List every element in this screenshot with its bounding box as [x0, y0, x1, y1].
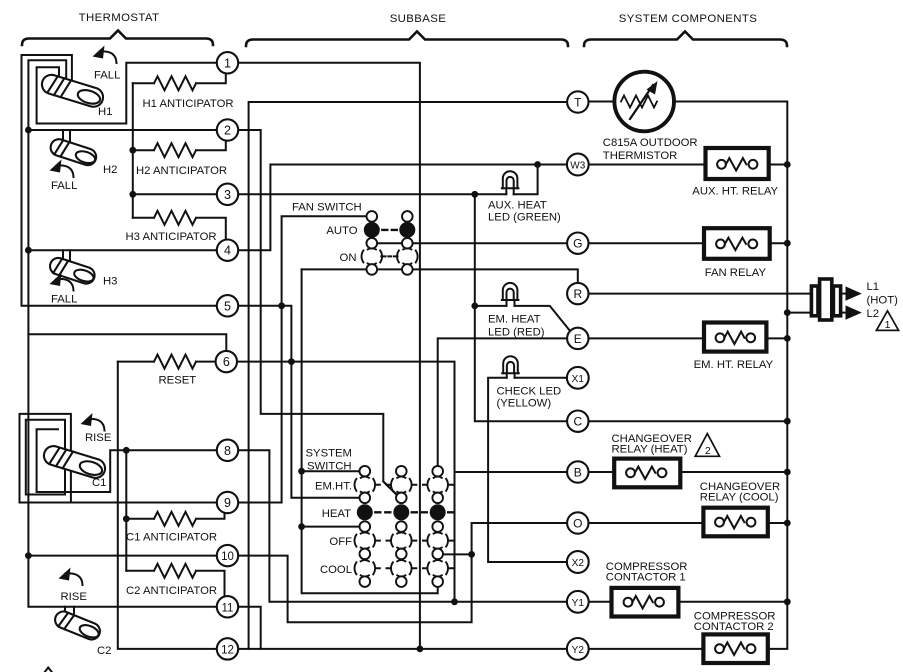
svg-text:CONTACTOR 1: CONTACTOR 1 [606, 572, 686, 584]
arrow L1 [841, 293, 846, 295]
brace thermostat [22, 31, 213, 46]
arrow L2 [841, 312, 846, 314]
dashed contact row ticks y=484.8 [376, 484, 453, 486]
svg-text:THERMISTOR: THERMISTOR [603, 150, 677, 162]
wire H3 stubs [63, 250, 70, 263]
warning triangle 2 (changeover heat) [695, 434, 719, 457]
warning triangle 1 (L2) [876, 311, 898, 331]
svg-text:EM. HT. RELAY: EM. HT. RELAY [694, 359, 774, 371]
svg-text:LED (RED): LED (RED) [488, 327, 545, 339]
svg-text:11: 11 [222, 602, 234, 614]
wire terminal 4 left [28, 249, 216, 251]
arrow FALL H3 [57, 279, 74, 291]
terminal B [567, 461, 588, 482]
svg-text:RISE: RISE [61, 591, 88, 603]
fan col1 contacts [367, 211, 378, 222]
title SUBBASE [390, 13, 447, 25]
wire anticipator bus x=126.3 [125, 450, 127, 571]
svg-text:THERMOSTAT: THERMOSTAT [79, 12, 160, 24]
svg-text:RELAY (HEAT): RELAY (HEAT) [612, 444, 688, 456]
svg-text:8: 8 [224, 444, 231, 458]
svg-text:AUX. HEAT: AUX. HEAT [488, 200, 547, 212]
terminal G [567, 233, 588, 254]
fan on dashed contact col2 [403, 248, 411, 249]
svg-text:RISE: RISE [85, 432, 112, 444]
svg-text:EM.HT.: EM.HT. [315, 480, 352, 492]
terminal 2 [217, 119, 238, 140]
brace system components [584, 32, 787, 47]
arrow RISE C2 [66, 573, 83, 585]
resistor H2 anticipator [133, 141, 226, 157]
wire net system switch col1 top [302, 470, 360, 472]
svg-text:H2: H2 [103, 164, 117, 176]
arrow FALL H2 [57, 165, 74, 177]
svg-text:SYSTEM COMPONENTS: SYSTEM COMPONENTS [619, 13, 757, 25]
svg-text:2: 2 [705, 445, 711, 457]
wire net fan switch feed [282, 216, 367, 306]
svg-text:CHECK LED: CHECK LED [497, 386, 562, 398]
terminal C [567, 411, 588, 432]
wire C1 outer loop with terminal 9 wire [20, 414, 217, 503]
wire net terminal 9 [238, 306, 281, 503]
svg-text:T: T [574, 96, 582, 110]
svg-text:H1 ANTICIPATOR: H1 ANTICIPATOR [143, 98, 234, 110]
terminal 10 [217, 545, 238, 566]
dashed contact row ticks y=568.3 [376, 567, 453, 569]
wire left rail 2 (H1 mid loop down to terminal 11 wire) [28, 60, 216, 607]
terminal X1 [567, 367, 589, 389]
mercury bulb C2 [53, 609, 103, 642]
switch column small contacts x=364.8 [360, 466, 371, 477]
wire net terminal 8 to Y1 [238, 450, 567, 602]
svg-text:HEAT: HEAT [322, 508, 351, 520]
wire terminal 10 left [28, 555, 216, 557]
svg-text:L1: L1 [867, 281, 880, 293]
relay FAN [589, 228, 788, 259]
svg-text:9: 9 [224, 496, 231, 510]
wire net G row [367, 242, 567, 244]
connector L1 L2 plug [811, 279, 840, 320]
wire net terminal 3 to aux LED [238, 165, 537, 195]
svg-text:R: R [573, 287, 582, 301]
wire net ON row to R [302, 269, 578, 283]
svg-text:C1 ANTICIPATOR: C1 ANTICIPATOR [126, 532, 217, 544]
svg-text:COOL: COOL [320, 564, 352, 576]
wire terminal 2 left [28, 129, 216, 131]
svg-text:5: 5 [224, 299, 231, 313]
arrow RISE C1 [88, 419, 105, 431]
svg-text:(YELLOW): (YELLOW) [497, 398, 552, 410]
svg-text:C2 ANTICIPATOR: C2 ANTICIPATOR [126, 585, 217, 597]
dashed contact (437.7,540.6) [434, 532, 442, 533]
terminal 1 [217, 52, 238, 73]
relay CHANGEOVER COOL [589, 508, 788, 537]
wire net col3 off spur [443, 553, 472, 555]
svg-text:RESET: RESET [159, 375, 197, 387]
thermistor C815A [567, 72, 787, 649]
terminal 6 [216, 351, 237, 372]
wire anticipator bus x=132.8 [132, 83, 134, 218]
wire net terminal 6 to B [238, 362, 567, 602]
resistor C2 anticipator [126, 564, 224, 596]
svg-text:H3: H3 [103, 276, 117, 288]
svg-text:2: 2 [224, 124, 231, 138]
svg-text:AUTO: AUTO [326, 225, 357, 237]
wire C1 mid loop [26, 420, 65, 495]
wire terminal 3 left [133, 193, 217, 195]
terminal O [567, 512, 588, 533]
terminal W3 [567, 154, 589, 176]
svg-text:SUBBASE: SUBBASE [390, 13, 447, 25]
relay EM HT [589, 323, 788, 352]
svg-text:Y2: Y2 [572, 645, 585, 656]
dashed contact (437.7,568.3) [434, 560, 442, 561]
svg-text:6: 6 [223, 355, 230, 369]
wire net terminal 5 to fan bus [238, 306, 359, 498]
svg-text:12: 12 [221, 644, 234, 656]
svg-text:3: 3 [224, 188, 231, 202]
resistor C1 anticipator [126, 512, 224, 526]
wire terminal 6 top feed [28, 334, 226, 351]
svg-text:H3 ANTICIPATOR: H3 ANTICIPATOR [126, 231, 217, 243]
svg-text:(HOT): (HOT) [867, 295, 899, 307]
terminal 11 [217, 596, 238, 617]
wire net em heat LED to E [475, 306, 571, 331]
wire net T bus [249, 102, 567, 649]
wire net terminal 12 to Y2 [238, 648, 567, 650]
dashed contact (364.8,484.8) [361, 477, 369, 478]
svg-text:SYSTEM: SYSTEM [306, 448, 352, 460]
svg-text:RELAY (COOL): RELAY (COOL) [700, 492, 779, 504]
wire net terminal 1 to Y2 bus [238, 63, 420, 649]
fan on dashed contact col1 [368, 248, 376, 249]
wire net X1 check LED X2 [488, 378, 567, 562]
svg-text:O: O [573, 517, 582, 531]
wire C2 stubs [65, 607, 74, 619]
switch blade col2 em ht [383, 482, 397, 496]
dashed contact (401.3,540.6) [397, 532, 405, 533]
svg-text:1: 1 [885, 319, 891, 331]
system switch contacts [355, 466, 454, 587]
mercury bulb H1 [40, 73, 106, 110]
mercury bulb H2 [48, 137, 98, 167]
svg-text:FAN RELAY: FAN RELAY [705, 267, 767, 279]
title SYSTEM COMPONENTS [619, 13, 757, 25]
LED em heat (red) [502, 283, 519, 306]
LED aux heat (green) [502, 171, 519, 194]
wire H2 stubs [63, 130, 70, 145]
wire net system switch bus [302, 269, 438, 593]
svg-text:G: G [573, 237, 582, 251]
fan on ticks [381, 255, 397, 257]
wire C1 inner loop with terminal 8 wire [37, 429, 217, 492]
mercury bulb C1 [42, 444, 108, 481]
wire H1 inner loop [37, 63, 217, 124]
brace subbase [246, 32, 568, 47]
svg-text:E: E [574, 332, 582, 346]
wire net L2 [787, 312, 811, 314]
svg-text:LED (GREEN): LED (GREEN) [488, 212, 561, 224]
terminal X2 [567, 551, 589, 573]
svg-text:FALL: FALL [94, 70, 120, 82]
svg-text:FAN SWITCH: FAN SWITCH [292, 202, 362, 214]
svg-text:H2 ANTICIPATOR: H2 ANTICIPATOR [136, 165, 227, 177]
relay COMPRESSOR CONTACTOR 2 [589, 634, 768, 663]
warning triangle bottom left (partial) [45, 668, 52, 672]
switch column small contacts x=401.3 [396, 466, 407, 477]
resistor H3 anticipator [133, 211, 226, 240]
svg-text:X2: X2 [572, 558, 585, 569]
wire left rail (H1 outer loop to terminal 5) [22, 55, 217, 306]
terminal 9 [217, 492, 238, 513]
wire net system switch heat bottom [302, 526, 360, 528]
svg-text:B: B [574, 466, 582, 480]
svg-text:ON: ON [340, 252, 357, 264]
svg-text:C1: C1 [92, 477, 106, 489]
heat row dashes [375, 511, 453, 513]
resistor RESET [118, 355, 217, 369]
mercury bulb H3 [48, 256, 97, 286]
terminal 5 [217, 295, 238, 316]
dashed contact (364.8,568.3) [361, 560, 369, 561]
svg-text:AUX. HT. RELAY: AUX. HT. RELAY [692, 186, 778, 198]
relay COMPRESSOR CONTACTOR 1 [589, 588, 788, 617]
svg-text:OFF: OFF [329, 536, 352, 548]
svg-text:Y1: Y1 [572, 598, 585, 609]
LED check (yellow) [502, 356, 519, 378]
switch column small contacts x=437.7 [432, 466, 443, 477]
terminal E [567, 328, 588, 349]
svg-text:EM. HEAT: EM. HEAT [488, 314, 541, 326]
wire net terminal 2 to system switch col2 blade [238, 130, 397, 495]
arrow FALL H1 [100, 51, 117, 63]
terminal R [567, 283, 588, 304]
terminal 8 [217, 440, 238, 461]
terminal Y1 [567, 591, 589, 613]
svg-text:L2: L2 [867, 308, 880, 320]
svg-text:1: 1 [224, 56, 231, 70]
terminal Y2 [567, 638, 589, 660]
wire net C to bus [589, 420, 788, 422]
svg-text:SWITCH: SWITCH [307, 461, 352, 473]
wire net R to L1 [589, 293, 811, 295]
svg-text:C: C [573, 415, 582, 429]
wire net terminal 10 to O loop [238, 523, 567, 622]
svg-text:C2: C2 [97, 645, 111, 657]
wire net E to col3 top [438, 338, 567, 466]
wire net C bus [475, 194, 567, 421]
dashed contact (401.3,568.3) [397, 560, 405, 561]
fan auto dashes [382, 229, 397, 231]
wire net terminal 11 branch [238, 607, 261, 649]
fan switch contacts [362, 211, 418, 275]
svg-text:H1: H1 [98, 106, 112, 118]
wire reset bus x=117.8 and terminal 12 left [118, 362, 217, 649]
terminal T [567, 91, 588, 112]
svg-text:FALL: FALL [51, 180, 77, 192]
dashed contact (401.3,484.8) [397, 477, 405, 478]
relay CHANGEOVER HEAT [589, 459, 788, 488]
svg-text:C815A OUTDOOR: C815A OUTDOOR [603, 137, 698, 149]
svg-text:4: 4 [224, 244, 231, 258]
title THERMOSTAT [79, 12, 160, 24]
svg-text:X1: X1 [572, 374, 585, 385]
svg-text:CONTACTOR 2: CONTACTOR 2 [694, 621, 774, 633]
terminal 4 [217, 240, 238, 261]
terminal 3 [217, 184, 238, 205]
terminal 12 [217, 638, 238, 659]
relay AUX HT [589, 148, 788, 179]
svg-text:FALL: FALL [51, 294, 77, 306]
dashed contact (437.7,484.8) [434, 477, 442, 478]
wire net W3 to terminal 4 [238, 165, 567, 251]
svg-text:10: 10 [221, 551, 234, 563]
svg-text:W3: W3 [570, 161, 585, 172]
dashed contact (364.8,540.6) [361, 532, 369, 533]
resistor H1 anticipator [133, 74, 226, 91]
dashed contact row ticks y=540.6 [376, 540, 453, 542]
fan col2 contacts [402, 211, 413, 222]
